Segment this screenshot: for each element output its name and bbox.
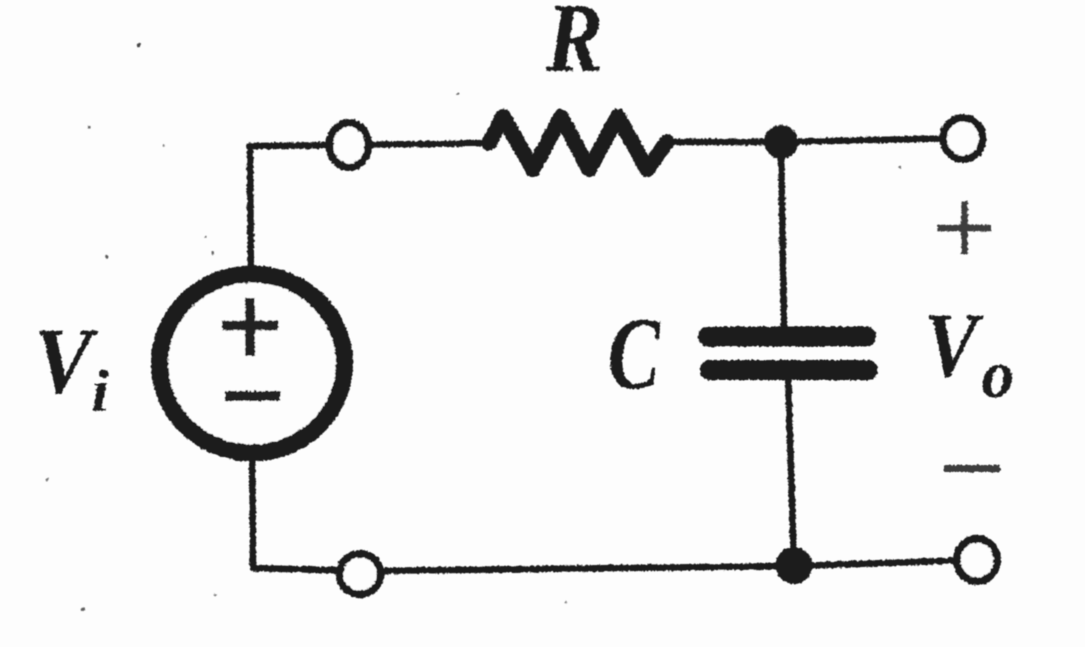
svg-text:C: C xyxy=(608,296,661,411)
svg-text:V: V xyxy=(924,294,984,396)
svg-text:R: R xyxy=(545,0,603,92)
svg-text:i: i xyxy=(91,359,109,424)
svg-text:V: V xyxy=(34,309,99,413)
svg-text:o: o xyxy=(982,338,1014,413)
